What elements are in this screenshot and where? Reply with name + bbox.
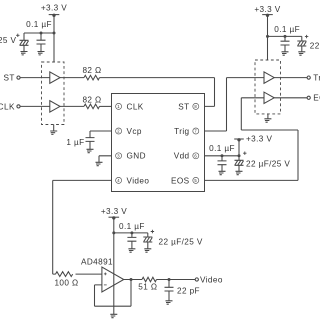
wire pin 4 Video run xyxy=(53,180,112,274)
wire ST to buffer xyxy=(20,77,50,79)
svg-text:2: 2 xyxy=(117,129,120,134)
svg-text:EOS: EOS xyxy=(171,176,190,185)
pin 2 Vcp xyxy=(116,127,142,136)
svg-text:0.1 µF: 0.1 µF xyxy=(119,222,145,231)
ground xyxy=(166,301,173,304)
wire to pin 1 xyxy=(100,105,112,107)
svg-text:Vdd: Vdd xyxy=(174,152,190,161)
capacitor 0.1uF at Vdd xyxy=(218,156,227,172)
ground xyxy=(144,249,151,252)
resistor 51 ohm xyxy=(138,277,157,291)
capacitor 0.1uF bottom xyxy=(127,233,136,249)
wire supply down through op-amp to ground xyxy=(113,218,115,315)
ground xyxy=(50,131,57,134)
power +3.3V above op-amp xyxy=(101,207,127,220)
op-amp AD4891 xyxy=(81,257,124,292)
svg-text:+3.3 V: +3.3 V xyxy=(246,134,272,143)
ground xyxy=(38,52,45,55)
buffer box right (dashed) xyxy=(255,60,281,114)
svg-text:22 pF: 22 pF xyxy=(177,287,200,296)
ground xyxy=(87,149,94,152)
svg-text:6: 6 xyxy=(194,154,197,159)
pin 8 ST xyxy=(178,102,199,111)
ground xyxy=(282,52,289,55)
ground xyxy=(96,162,103,165)
svg-text:GND: GND xyxy=(127,152,146,161)
capacitor 22uF/25V top-left (polarized) xyxy=(16,33,28,52)
junction (feedback tap) xyxy=(130,278,133,281)
wire down to right buffer box xyxy=(267,15,269,60)
resistor 100 ohm xyxy=(53,272,79,288)
wire op-amp output xyxy=(124,279,142,281)
svg-text:CLK: CLK xyxy=(0,102,15,111)
resistor 82 ohm (CLK) xyxy=(82,96,101,109)
svg-text:4: 4 xyxy=(117,178,120,183)
svg-text:8: 8 xyxy=(194,104,197,109)
pin 1 CLK xyxy=(116,102,144,111)
IC U1 body xyxy=(112,94,205,192)
wire CLK to buffer xyxy=(20,105,50,107)
svg-text:5: 5 xyxy=(194,178,197,183)
svg-text:Video: Video xyxy=(127,176,150,185)
junction xyxy=(238,154,241,157)
wire bottom supply branch xyxy=(114,232,148,234)
ground xyxy=(264,119,271,122)
junction at (54,33) xyxy=(53,32,56,35)
power +3.3V rail top-right xyxy=(254,5,280,17)
terminal ST input xyxy=(4,74,21,83)
svg-text:22 µF/25 V: 22 µF/25 V xyxy=(159,237,203,246)
resistor 82 ohm (ST) xyxy=(82,66,101,80)
junction xyxy=(130,231,133,234)
capacitor 0.1uF top-left xyxy=(37,33,46,52)
power +3.3V at Vdd xyxy=(234,134,272,156)
ground xyxy=(21,52,28,55)
wire to op-amp + input xyxy=(76,273,102,275)
svg-text:AD4891: AD4891 xyxy=(81,257,113,266)
svg-text:3: 3 xyxy=(117,154,120,159)
buffer ST xyxy=(50,72,60,83)
svg-text:22 µF/25 V: 22 µF/25 V xyxy=(0,36,16,45)
power +3.3V rail top-left xyxy=(41,3,67,17)
wire: +3.3V down to left buffer box xyxy=(53,15,55,62)
junction at (41,33) xyxy=(40,32,43,35)
wire EOS buffer to terminal xyxy=(274,97,307,99)
capacitor 22pF xyxy=(165,280,200,301)
wire pin 5 EOS to right buffer (routed) xyxy=(205,98,299,181)
wire buffer ST out xyxy=(60,77,84,79)
svg-text:Trig: Trig xyxy=(174,127,189,136)
junction xyxy=(266,35,269,38)
pin 5 EOS xyxy=(171,176,199,185)
buffer box left (dashed) xyxy=(42,62,65,125)
capacitor 22uF/25V top-right (polarized) xyxy=(297,35,308,52)
svg-text:+3.3 V: +3.3 V xyxy=(101,207,127,216)
svg-text:EOS: EOS xyxy=(313,94,320,103)
svg-text:ST: ST xyxy=(178,102,189,111)
svg-text:1 µF: 1 µF xyxy=(66,138,84,147)
junction (22pF tap) xyxy=(168,278,171,281)
ground under op-amp xyxy=(110,314,117,317)
junction xyxy=(221,154,224,157)
pin 7 Trig xyxy=(174,127,199,136)
svg-text:0.1 µF: 0.1 µF xyxy=(26,20,52,29)
wire pin 7 Trig to right buffer xyxy=(205,78,265,131)
svg-text:Video: Video xyxy=(200,275,223,284)
buffer Trig xyxy=(264,72,274,83)
svg-text:+3.3 V: +3.3 V xyxy=(254,5,280,14)
wire buffer box to ground xyxy=(267,114,269,119)
svg-text:CLK: CLK xyxy=(127,102,144,111)
wire: top-left supply branch xyxy=(24,32,54,34)
svg-text:ST: ST xyxy=(4,74,15,83)
wire ST long run to pin 8 xyxy=(100,78,215,107)
pin 6 Vdd xyxy=(174,152,199,161)
svg-text:+3.3 V: +3.3 V xyxy=(41,3,67,12)
pin 4 Video xyxy=(116,176,150,185)
junction xyxy=(112,231,115,234)
terminal EOS output (clipped label) xyxy=(307,94,320,103)
svg-text:7: 7 xyxy=(194,129,197,134)
junction xyxy=(284,35,287,38)
ground xyxy=(298,52,305,55)
capacitor 1uF at Vcp xyxy=(66,131,111,149)
svg-text:22 µF/25 V: 22 µF/25 V xyxy=(310,41,320,50)
capacitor 22uF/25V bottom (polarized) xyxy=(143,230,154,249)
buffer CLK xyxy=(50,101,60,112)
svg-text:1: 1 xyxy=(117,104,120,109)
wire Trig buffer to terminal xyxy=(274,77,307,79)
wire to Video terminal xyxy=(157,279,196,281)
wire pin 3 to ground xyxy=(99,156,112,163)
svg-text:0.1 µF: 0.1 µF xyxy=(274,25,300,34)
wire buffer box to ground xyxy=(53,125,55,132)
svg-text:100 Ω: 100 Ω xyxy=(54,279,78,288)
ground xyxy=(219,171,226,174)
wire feedback loop xyxy=(95,280,132,307)
wire top-right supply branch xyxy=(268,35,302,37)
svg-text:Vcp: Vcp xyxy=(127,127,142,136)
svg-text:Trig: Trig xyxy=(313,74,320,83)
ground xyxy=(236,171,243,174)
terminal Trig output (clipped label) xyxy=(307,74,320,83)
ground xyxy=(128,249,135,252)
capacitor 0.1uF top-right xyxy=(281,36,290,51)
capacitor 22uF/25V at Vdd (polarized) xyxy=(235,152,247,172)
svg-text:82 Ω: 82 Ω xyxy=(82,66,101,75)
pin 3 GND xyxy=(116,152,146,161)
svg-text:51 Ω: 51 Ω xyxy=(138,283,157,292)
wire pin 6 Vdd rail xyxy=(205,155,240,157)
buffer EOS xyxy=(264,92,274,103)
wire buffer CLK out xyxy=(60,105,84,107)
svg-text:0.1 µF: 0.1 µF xyxy=(209,144,235,153)
terminal CLK input xyxy=(0,102,20,111)
svg-text:22 µF/25 V: 22 µF/25 V xyxy=(246,159,290,168)
terminal Video output xyxy=(195,275,223,284)
